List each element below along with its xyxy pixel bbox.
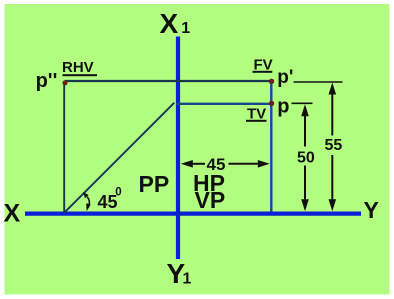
wire 45-degree miter line bbox=[64, 103, 174, 213]
axis X-Y (horizontal ground line) bbox=[25, 212, 361, 216]
svg-text:1: 1 bbox=[181, 20, 190, 37]
point p' (dark red dot) bbox=[269, 79, 273, 83]
svg-text:X: X bbox=[4, 200, 21, 228]
point p'' (dark red dot) bbox=[63, 81, 67, 85]
svg-text:0: 0 bbox=[115, 186, 121, 198]
dimension arrow 45 (horizontal double arrow) bbox=[181, 160, 270, 168]
svg-text:55: 55 bbox=[325, 137, 343, 154]
svg-text:PP: PP bbox=[139, 171, 170, 197]
wire TV horizontal line bbox=[176, 103, 273, 105]
dimension arrow 50 (vertical double arrow) bbox=[301, 104, 309, 211]
svg-text:Y: Y bbox=[364, 197, 379, 223]
wire p'' vertical projector down to X-Y line bbox=[63, 82, 65, 213]
point p (dark red dot) bbox=[269, 101, 273, 105]
extension line from p' bbox=[294, 81, 343, 83]
extension line from p bbox=[292, 102, 313, 104]
svg-text:p': p' bbox=[277, 67, 293, 88]
svg-text:RHV: RHV bbox=[62, 59, 94, 76]
svg-text:50: 50 bbox=[297, 149, 315, 166]
svg-text:1: 1 bbox=[183, 270, 192, 287]
dimension arrow 55 (vertical double arrow) bbox=[329, 83, 337, 212]
wire p'' to p' (horizontal projector at y=81) bbox=[65, 80, 272, 82]
svg-text:X: X bbox=[160, 8, 179, 39]
svg-text:p'': p'' bbox=[36, 70, 58, 92]
svg-text:p: p bbox=[277, 95, 289, 117]
wire p' vertical projector down to X-Y line bbox=[270, 81, 272, 213]
svg-text:VP: VP bbox=[195, 187, 226, 213]
angle arc 45 degrees with arrowheads bbox=[83, 192, 91, 211]
axis X1-Y1 (vertical reference line) bbox=[176, 37, 180, 260]
